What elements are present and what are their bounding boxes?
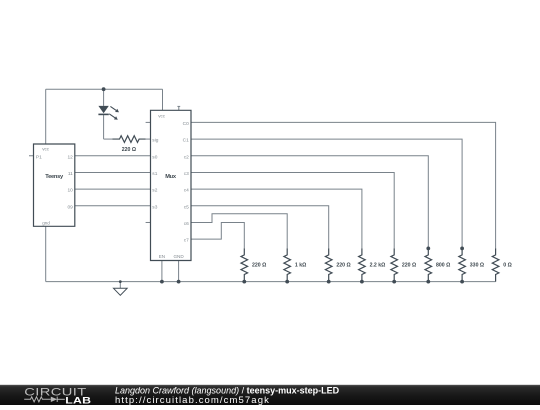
svg-text:Teensy: Teensy [45, 174, 64, 180]
svg-text:EN: EN [159, 254, 165, 259]
svg-text:220 Ω: 220 Ω [252, 263, 266, 269]
svg-text:Langdon Crawford (langsound) /: Langdon Crawford (langsound) / teensy-mu… [115, 386, 340, 396]
svg-text:s0: s0 [152, 154, 157, 160]
svg-text:12: 12 [67, 154, 73, 160]
svg-text:GND: GND [173, 254, 184, 259]
svg-text:220 Ω: 220 Ω [402, 263, 416, 269]
svg-text:P1: P1 [36, 154, 42, 160]
svg-text:c2: c2 [184, 154, 189, 160]
svg-text:C0: C0 [183, 121, 189, 127]
svg-text:1 kΩ: 1 kΩ [295, 263, 306, 269]
svg-text:10: 10 [67, 188, 73, 194]
svg-text:c7: c7 [184, 238, 189, 244]
svg-text:220 Ω: 220 Ω [122, 147, 136, 153]
svg-text:s1: s1 [152, 171, 157, 177]
svg-text:s3: s3 [152, 204, 157, 210]
svg-text:220 Ω: 220 Ω [336, 263, 350, 269]
svg-text:C1: C1 [183, 138, 189, 144]
svg-text:c6: c6 [184, 221, 189, 227]
svg-text:2.2 kΩ: 2.2 kΩ [370, 263, 386, 269]
svg-text:vcc: vcc [42, 146, 50, 151]
svg-text:s2: s2 [152, 188, 157, 194]
svg-text:gnd: gnd [42, 221, 50, 226]
svg-text:c3: c3 [184, 171, 189, 177]
svg-text:800 Ω: 800 Ω [436, 263, 450, 269]
svg-text:LAB: LAB [65, 396, 91, 405]
svg-text:Mux: Mux [165, 174, 177, 180]
svg-text:330 Ω: 330 Ω [470, 263, 484, 269]
svg-text:http://circuitlab.com/cm57agk: http://circuitlab.com/cm57agk [115, 395, 270, 405]
svg-text:vcc: vcc [158, 113, 166, 118]
svg-text:c5: c5 [184, 204, 189, 210]
svg-text:c4: c4 [184, 188, 189, 194]
svg-text:0 Ω: 0 Ω [503, 263, 512, 269]
svg-text:11: 11 [68, 171, 73, 177]
svg-text:sig: sig [152, 138, 158, 144]
svg-text:09: 09 [67, 204, 73, 210]
